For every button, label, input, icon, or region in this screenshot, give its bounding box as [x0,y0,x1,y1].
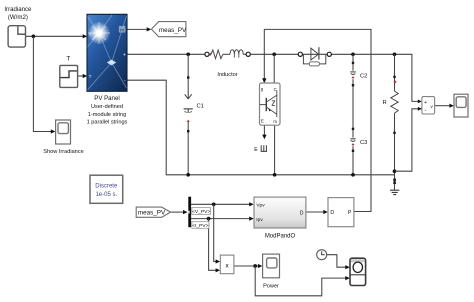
junction I_PV branch [207,217,211,221]
product block X [220,255,234,274]
capacitor C3 [350,128,355,152]
label C3 [360,140,367,146]
XY graph block [350,258,366,285]
wire ModPandO D output to PWM D input [306,210,328,214]
junction C2 top [351,52,355,56]
ground [390,190,399,194]
svg-text:Irradiance: Irradiance [4,6,32,13]
terminator E under IGBT [254,145,267,153]
wire from tag to bus selector [171,210,188,214]
svg-text:1e-05 s.: 1e-05 s. [95,192,117,198]
signal label <I_PV> [192,222,209,229]
wire clock to XY graph upper input [327,255,350,270]
svg-text:m: m [120,27,124,32]
svg-text:Ir: Ir [89,31,92,36]
svg-text:+: + [123,53,126,59]
label PV Panel [87,95,128,126]
label R [383,100,387,106]
junction V_PV branch [212,202,216,206]
wire v output to scope [435,104,454,108]
svg-text:R: R [383,100,387,106]
svg-text:meas_PV: meas_PV [138,210,166,217]
svg-text:Discrete: Discrete [95,184,118,190]
capacitor C2 [350,62,355,87]
svg-text:ModPandO: ModPandO [265,234,296,240]
junction C1 bottom on rail [186,173,190,177]
svg-text:<V_PV>: <V_PV> [192,209,210,215]
junction IGBT collector branch [272,52,276,56]
wire power branch to XY graph lower input [255,266,350,296]
svg-text:C2: C2 [360,73,367,79]
wire C2 C3 branch vertical [352,54,354,175]
wire product output to Power scope [234,264,263,268]
svg-text:<I_PV>: <I_PV> [192,223,208,229]
wire V_PV branch to product [214,204,220,263]
label Show Irradiance [43,149,83,155]
label Irradiance (W/m2) [4,6,32,21]
voltage measurement block [422,97,435,114]
bus selector [188,197,191,228]
scope Power [263,254,280,278]
scope Show Irradiance [56,120,71,144]
wire irradiance source to PV Ir input [26,34,88,38]
resistor R [390,76,399,184]
inductor Inductor RL branch [205,50,250,59]
svg-text:Inductor: Inductor [217,72,237,78]
svg-text:Ipv: Ipv [256,217,263,223]
wire IGBT m port to bottom rail [274,125,276,175]
capacitor C1 [184,76,193,132]
step source T [60,65,78,87]
wire voltage measurement plus arrow [418,100,422,111]
label Inductor [217,72,237,78]
wire minus return to voltage measurement [395,109,422,171]
PV Panel block [87,14,127,91]
wire diode to right corner main line [331,54,419,101]
svg-text:+: + [424,100,427,106]
svg-text:1-module string: 1-module string [88,112,127,118]
svg-text:meas_PV: meas_PV [159,27,187,34]
svg-text:User-defined: User-defined [91,104,123,110]
powergui block Discrete 1e-05 s [90,175,123,203]
svg-text:-: - [124,78,126,84]
wire I_PV signal to Ipv input [191,217,254,221]
svg-text:1 parallel strings: 1 parallel strings [87,120,128,126]
junction R top [393,52,397,56]
wire gate line from PWM P output up and across to IGBT gate [262,29,371,211]
svg-text:T: T [89,74,92,79]
label C2 [360,73,367,79]
svg-text:-: - [425,108,427,114]
wire R branch vertical with ground lead [394,54,396,190]
svg-text:(W/m2): (W/m2) [8,14,28,21]
junction irradiance branch [32,34,36,38]
IGBT block [260,83,281,125]
label C1 [197,104,204,110]
PWM generator block D to P [328,198,354,227]
svg-text:Power: Power [263,283,279,289]
svg-text:E: E [261,119,264,124]
wire IGBT emitter to terminator E [262,125,266,139]
wire PV + output main line to inductor [127,53,205,55]
wire T block to PV T input [78,74,88,78]
signal label <V_PV> [192,208,211,215]
from tag meas_PV [136,207,170,217]
clock [317,250,327,260]
junction C3 bottom on rail [351,173,355,177]
svg-text:E: E [254,147,258,153]
label T [67,56,71,63]
wire PV m output to goto tag meas_PV [127,27,151,31]
junction C1 top [186,52,190,56]
svg-text:D: D [330,210,334,216]
wire I_PV branch to product [209,219,221,273]
junction power branch [253,264,257,268]
svg-text:C: C [274,87,277,92]
scope voltage display [454,94,468,117]
svg-text:P: P [348,210,352,216]
wire C1 branch vertical [187,54,189,175]
goto tag meas_PV [151,22,187,37]
svg-text:C3: C3 [360,140,367,146]
svg-text:PV Panel: PV Panel [94,95,119,102]
junction IGBT bottom on rail [273,173,277,177]
label ModPandO [265,234,296,240]
svg-text:T: T [67,56,71,63]
junction R bottom return [393,169,397,173]
wire PV - output down and bottom rail [127,80,395,175]
wire V_PV signal to Vpv input [191,202,254,206]
svg-text:Vpv: Vpv [256,203,265,209]
svg-text:D: D [300,210,304,216]
wire irradiance branch to Show Irradiance scope [33,36,55,133]
wire IGBT collector drop [273,54,275,83]
MPPT block ModPandO [254,197,306,228]
svg-text:m: m [273,119,277,124]
svg-text:C1: C1 [197,104,204,110]
label Power [263,283,279,289]
svg-text:Show Irradiance: Show Irradiance [43,149,83,155]
wire inductor to diode main line [250,53,298,55]
diode D1 with snubber [298,47,331,66]
source block Irradiance (W/m2) [8,26,25,47]
